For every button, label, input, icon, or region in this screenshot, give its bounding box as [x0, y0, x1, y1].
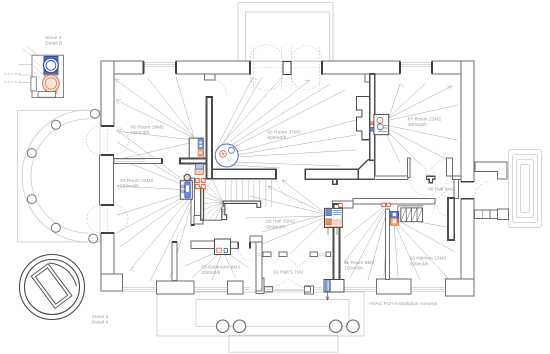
stair corner line: [202, 180, 214, 193]
top wall seg 2: [176, 61, 250, 74]
terrace top inner: [246, 12, 330, 61]
svg-text:Stove 3: Stove 3: [92, 314, 109, 320]
bathroom door arc: [238, 249, 250, 261]
bottom wall pilaster B3: [228, 281, 243, 294]
hall01 partition jamb 3: [310, 252, 318, 257]
cap H3 left: [304, 169, 306, 179]
kitchen air lines: [394, 218, 455, 280]
svg-text:05 Room 19M2: 05 Room 19M2: [131, 124, 165, 130]
kitchen door arc: [437, 205, 448, 216]
TERRACE COLUMNS: [217, 320, 360, 332]
french door arcs above: [250, 45, 322, 62]
door hall08 arc east: [435, 179, 447, 191]
bay upper door butterfly: [87, 126, 129, 155]
fixture at stair foot: [194, 216, 203, 225]
unit bathroom: [215, 239, 231, 255]
chimney zigzag room07: [357, 97, 370, 140]
svg-text:11 Room 8M2: 11 Room 8M2: [344, 260, 375, 266]
right exterior stair nested rect 4: [521, 165, 530, 213]
pilaster below top wall right: [365, 74, 374, 82]
caps top wall window1: [144, 62, 177, 74]
hall01 partition jamb 1: [263, 252, 271, 257]
bottom wall small seg at V7: [256, 278, 264, 294]
dashed arrows stove2: [5, 74, 21, 82]
STOVE2 DETAIL top-left: [5, 55, 64, 97]
interior wall H0 seg a: [114, 159, 162, 164]
porch outward door arc: [475, 182, 491, 198]
STAIRS: [201, 179, 272, 221]
svg-text:320m3/h: 320m3/h: [410, 261, 429, 267]
vents 2x2 room04: [195, 179, 205, 189]
hall01 partition glazing: [256, 253, 334, 255]
interior wall V4: [370, 74, 375, 160]
caps top wall window2: [400, 62, 432, 74]
bottom wall pilaster B5: [376, 279, 411, 294]
window W1 top: [144, 63, 177, 67]
WALLS: [100, 61, 509, 296]
kitchen vents red: [382, 203, 391, 207]
stair treads: [225, 179, 271, 207]
interior wall V1: [207, 97, 213, 179]
hall01 partition jamb 4: [326, 252, 331, 257]
hall01 partition jamb 2: [279, 252, 287, 257]
stove2 leader lines: [19, 46, 41, 83]
interior wall V6: [334, 204, 340, 283]
caps bay doors: [101, 126, 114, 233]
right exterior stair nested rect 3: [517, 160, 534, 218]
bay porch boundary rect: [18, 110, 101, 242]
french door centerline: [250, 47, 322, 89]
porch door arc: [433, 188, 458, 214]
bathroom air lines: [185, 250, 249, 280]
stair rail stringer: [222, 203, 225, 215]
svg-text:HVAC FCH Installation concept: HVAC FCH Installation concept: [369, 301, 438, 307]
kitchen stove hatched: [398, 206, 424, 223]
pilaster below top wall left: [205, 74, 215, 80]
entrance jamb right: [304, 287, 310, 292]
stair stringer wall: [201, 188, 204, 220]
entrance threshold: [272, 289, 304, 291]
vestibule door arc west: [410, 160, 427, 177]
extra room06 air lines: [222, 77, 356, 155]
svg-text:03 Bathroom 6M2: 03 Bathroom 6M2: [201, 264, 240, 270]
room05 air lines: [115, 77, 194, 158]
unit room04 box: [180, 174, 192, 199]
svg-text:10 Kitchen 13M2: 10 Kitchen 13M2: [410, 256, 447, 262]
interior wall H5 west box: [333, 201, 354, 208]
left wall seg 1: [101, 61, 114, 126]
cap right wall porch: [461, 182, 474, 199]
stair bottom edge: [204, 219, 222, 221]
interior wall H5: [353, 199, 435, 204]
bottom wall pilaster B2: [157, 281, 194, 294]
left wall bay chunk: [100, 155, 114, 205]
bay lower door butterfly: [87, 205, 128, 233]
left wall seg 3: [101, 233, 114, 281]
svg-text:Stove 2: Stove 2: [45, 35, 62, 41]
svg-text:02 Hall 31M2: 02 Hall 31M2: [266, 219, 295, 225]
caps V1: [207, 97, 213, 179]
door hall08 arc west: [410, 179, 426, 195]
french door arcs below: [250, 74, 322, 91]
right wall seg 1: [461, 61, 474, 182]
porch outer block: [498, 209, 509, 220]
vestibule door arc east: [430, 160, 447, 177]
BAY COLUMNS: [27, 109, 99, 243]
door stairs-top arc: [276, 174, 305, 203]
terrace bottom inner: [196, 300, 349, 327]
stair rail rungs: [222, 210, 225, 215]
room04 air lines: [117, 130, 193, 281]
bay outer arc: [22, 110, 88, 242]
hall01 door V dash 1: [271, 257, 279, 264]
DARK CAPS: [101, 61, 474, 249]
entrance jamb left: [265, 287, 273, 292]
red glyph on H5 box: [339, 203, 343, 207]
right wall seg 2: [461, 199, 474, 296]
bay radiator line: [114, 160, 145, 162]
terrace top outer: [238, 3, 333, 62]
entrance door V dash: [273, 280, 305, 289]
caps french door: [250, 61, 322, 75]
STOVE3 DETAIL bottom-left: [20, 255, 85, 320]
interior wall H0 seg b: [180, 159, 207, 164]
WINDOWS: [114, 63, 446, 291]
air arrowheads: [115, 77, 452, 279]
caps V2 opening: [191, 224, 195, 226]
stair handrail U channel: [223, 201, 261, 207]
french door mullion: [283, 62, 291, 75]
svg-text:150m3/h: 150m3/h: [120, 184, 139, 190]
top wall seg 3: [322, 61, 400, 74]
room07 air lines: [386, 84, 458, 164]
hall08 north thin wall west: [375, 176, 408, 179]
hall08 north thin wall east: [453, 176, 461, 179]
right exterior stair link line: [506, 175, 509, 177]
svg-text:Detail B: Detail B: [45, 40, 62, 46]
hall08 jamb wall B: [408, 158, 411, 178]
unit hall02: [325, 203, 343, 235]
hall08 jamb wall C: [447, 158, 453, 176]
arrow below unit hall01: [327, 293, 329, 301]
bay inner arc: [31, 119, 88, 233]
caps H0 opening: [162, 159, 180, 164]
svg-text:150m3/h: 150m3/h: [131, 130, 150, 136]
interior wall V8 kitchen-room11: [386, 209, 390, 280]
terrace bottom outer: [157, 292, 364, 336]
svg-text:Detail 4: Detail 4: [92, 319, 109, 325]
interior wall step V5 top: [454, 179, 459, 198]
interior wall V5: [448, 198, 454, 240]
svg-text:07 Room 22M2: 07 Room 22M2: [408, 116, 442, 122]
svg-text:08 Hall 9m2: 08 Hall 9m2: [428, 186, 454, 192]
left bottom corner pilaster: [101, 274, 123, 291]
hall01 door V dash 2: [287, 257, 310, 268]
unit room05 box: [189, 138, 203, 158]
porch canopy L bar: [475, 162, 507, 179]
kitchen unit squares: [390, 211, 398, 225]
stair rail foot: [222, 215, 227, 220]
room06 air lines: [217, 77, 356, 168]
svg-text:600m3/h: 600m3/h: [267, 135, 286, 141]
window W2 top: [400, 63, 432, 67]
svg-text:500m3/h: 500m3/h: [266, 224, 285, 230]
interior wall V2: [191, 178, 195, 225]
bathroom north bar H2a: [191, 241, 216, 249]
top wall seg 1: [101, 61, 144, 74]
extra room04 air lines: [117, 142, 191, 232]
svg-text:06 Room 37M2: 06 Room 37M2: [267, 130, 301, 136]
cap V3 top: [172, 241, 177, 243]
room11 air lines: [344, 205, 388, 280]
cap H1 right: [275, 169, 277, 179]
right exterior stair nested rect 2: [513, 155, 538, 223]
jamb notch under H3: [333, 179, 337, 184]
top wall seg 4: [432, 61, 474, 74]
hall02 air lines: [245, 180, 325, 254]
BIG FAN CIRCLE room06: [215, 144, 238, 167]
bottom wall corner B6: [446, 279, 475, 296]
interior wall V3 closet: [172, 242, 177, 280]
bay door centerlines: [107, 126, 109, 233]
extra hall02 air lines: [262, 186, 324, 232]
interior wall H1: [212, 169, 276, 179]
interior wall V7 step: [250, 236, 262, 242]
door room05-06 arc: [212, 80, 228, 96]
closet door arc: [177, 226, 192, 241]
door room04 H0 arc: [177, 164, 190, 177]
svg-text:150m3/h: 150m3/h: [344, 266, 363, 272]
svg-text:200m3/h: 200m3/h: [201, 270, 220, 276]
circle on unit room04: [184, 174, 190, 180]
right exterior stair nested rect 1: [509, 150, 542, 228]
hall08 T pier: [426, 176, 435, 183]
stair winder fan: [201, 179, 224, 221]
interior wall H3: [305, 169, 360, 179]
svg-text:01 Hall 5.7M2: 01 Hall 5.7M2: [273, 269, 304, 275]
interior wall V7: [256, 236, 262, 291]
porch steps: [475, 210, 498, 218]
DASHED DOOR ARCS: [87, 45, 491, 289]
unit hall01 on bottom wall: [324, 280, 344, 301]
chamfer block H3-V4: [358, 160, 374, 179]
unit room07: [370, 114, 388, 134]
bathroom north bar H2b: [231, 242, 239, 249]
caps bathroom door: [238, 242, 250, 249]
bottom windows: [123, 287, 157, 291]
bottom wall stub B4: [304, 286, 313, 294]
RADIATING AIR LINES: [19, 46, 458, 281]
svg-text:04 Room 22M2: 04 Room 22M2: [120, 178, 154, 184]
terrace bottom step extension: [229, 335, 338, 352]
svg-text:400m3/h: 400m3/h: [408, 122, 427, 128]
unit room04 pair below H0: [195, 164, 204, 175]
